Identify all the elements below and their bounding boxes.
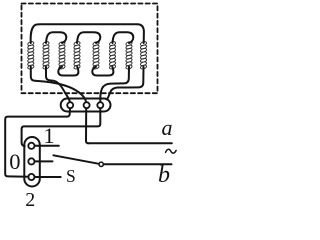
label S [66, 168, 76, 186]
coil L7 (k7) [125, 41, 132, 70]
wire: terminal L to contact 2 (left loop) [5, 108, 70, 176]
blade pivot [99, 162, 103, 166]
wire: terminal R to contact 1 [22, 108, 101, 146]
wire: k7 bottom to terminal R [100, 67, 129, 102]
terminal strip (horizontal stadium) [61, 99, 111, 112]
contact 0 [28, 158, 34, 164]
contact 1 [28, 143, 34, 149]
wire: k8 bottom to strip right end [107, 67, 144, 100]
AC source symbol ~ [166, 149, 177, 153]
coil L1 (k1) [27, 41, 34, 70]
coil L5 (k5) [92, 41, 99, 70]
label 0 [9, 151, 20, 174]
coil L4 (k4) [73, 41, 80, 70]
wire: top bridge k4-k5 [77, 32, 100, 43]
wire: k1 bottom to terminal M [31, 67, 86, 102]
label b [158, 163, 170, 187]
wire: long top link k1 top to k8 top [31, 24, 144, 43]
wire b to supply [104, 163, 172, 165]
wire: terminal M down [86, 108, 89, 143]
wire: bottom bridge k3-k4 [58, 67, 78, 76]
coil L3 (k3) [58, 41, 65, 70]
label 2 [25, 190, 35, 210]
label a [162, 117, 173, 139]
coil L8 (k8) [140, 41, 147, 70]
wire: top bridge k2-k3 [46, 32, 66, 43]
contact 2 stub [35, 176, 61, 178]
coil L2 (k2) [42, 41, 49, 70]
contact 2 [28, 174, 34, 180]
terminal R [97, 102, 103, 108]
contact 1 stub [35, 145, 59, 147]
wire: bottom bridge k5-k6 [92, 67, 113, 76]
switch blade S [53, 155, 99, 164]
wire: top bridge k6-k7 [113, 32, 134, 43]
switch terminal block (vertical stadium) [24, 137, 40, 187]
wire a to supply [88, 142, 172, 144]
wire: k2 bottom to terminal L [46, 67, 70, 102]
terminal M [84, 102, 90, 108]
contact 0 stub [35, 160, 53, 162]
dashed enclosure box [22, 4, 158, 94]
terminal L [67, 102, 73, 108]
coil L6 (k6) [109, 41, 116, 70]
label 1 [44, 125, 55, 147]
